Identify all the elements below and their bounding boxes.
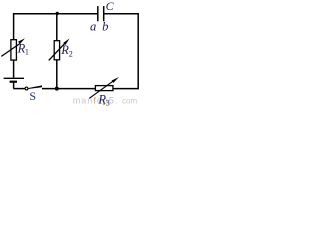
capacitor C left plate (97, 6, 99, 21)
resistor R3 body (95, 86, 113, 91)
wire: battery to bottom-left corner (13, 82, 15, 88)
battery long plate (4, 77, 24, 79)
svg-text:S: S (29, 89, 36, 103)
resistor R3 arrow (89, 77, 119, 98)
svg-text:com: com (122, 96, 137, 105)
battery short plate (10, 81, 17, 83)
node: junction dot top (R2 branch meets top wire) (56, 12, 59, 15)
wire: R2 branch lower (56, 60, 58, 89)
wire: R2 branch upper (56, 14, 58, 41)
wire: bottom middle (R3 to junction to switch lever) (42, 88, 95, 90)
resistor R1 arrow (1, 38, 25, 56)
wire: bottom left (switch circle to corner) (13, 88, 25, 90)
node: junction dot bottom (R2 branch meets bottom wire) (55, 87, 59, 91)
resistor R2 body (54, 41, 59, 60)
switch S contact circle (25, 87, 28, 90)
svg-text:C: C (106, 0, 115, 13)
watermark orange speck (103, 103, 105, 105)
svg-text:3: 3 (106, 98, 110, 107)
svg-text:2: 2 (69, 49, 73, 58)
wire: top horizontal left (corner to capacitor left plate) (14, 13, 98, 15)
svg-text:manfen5.: manfen5. (73, 96, 119, 106)
resistor R2 arrow (49, 39, 70, 61)
svg-text:a: a (90, 19, 96, 33)
capacitor C right plate (103, 6, 105, 21)
switch S lever (28, 85, 42, 89)
wire: right vertical (137, 13, 139, 89)
wire: bottom right (corner to resistor R3) (114, 88, 139, 90)
wire: R1 to battery (13, 60, 15, 78)
wire: left vertical (corner down to R1) (13, 13, 15, 39)
svg-text:b: b (102, 19, 108, 33)
svg-text:1: 1 (25, 48, 29, 57)
resistor R1 body (11, 40, 17, 60)
wire: top horizontal right (capacitor right plate to right corner) (104, 13, 138, 15)
